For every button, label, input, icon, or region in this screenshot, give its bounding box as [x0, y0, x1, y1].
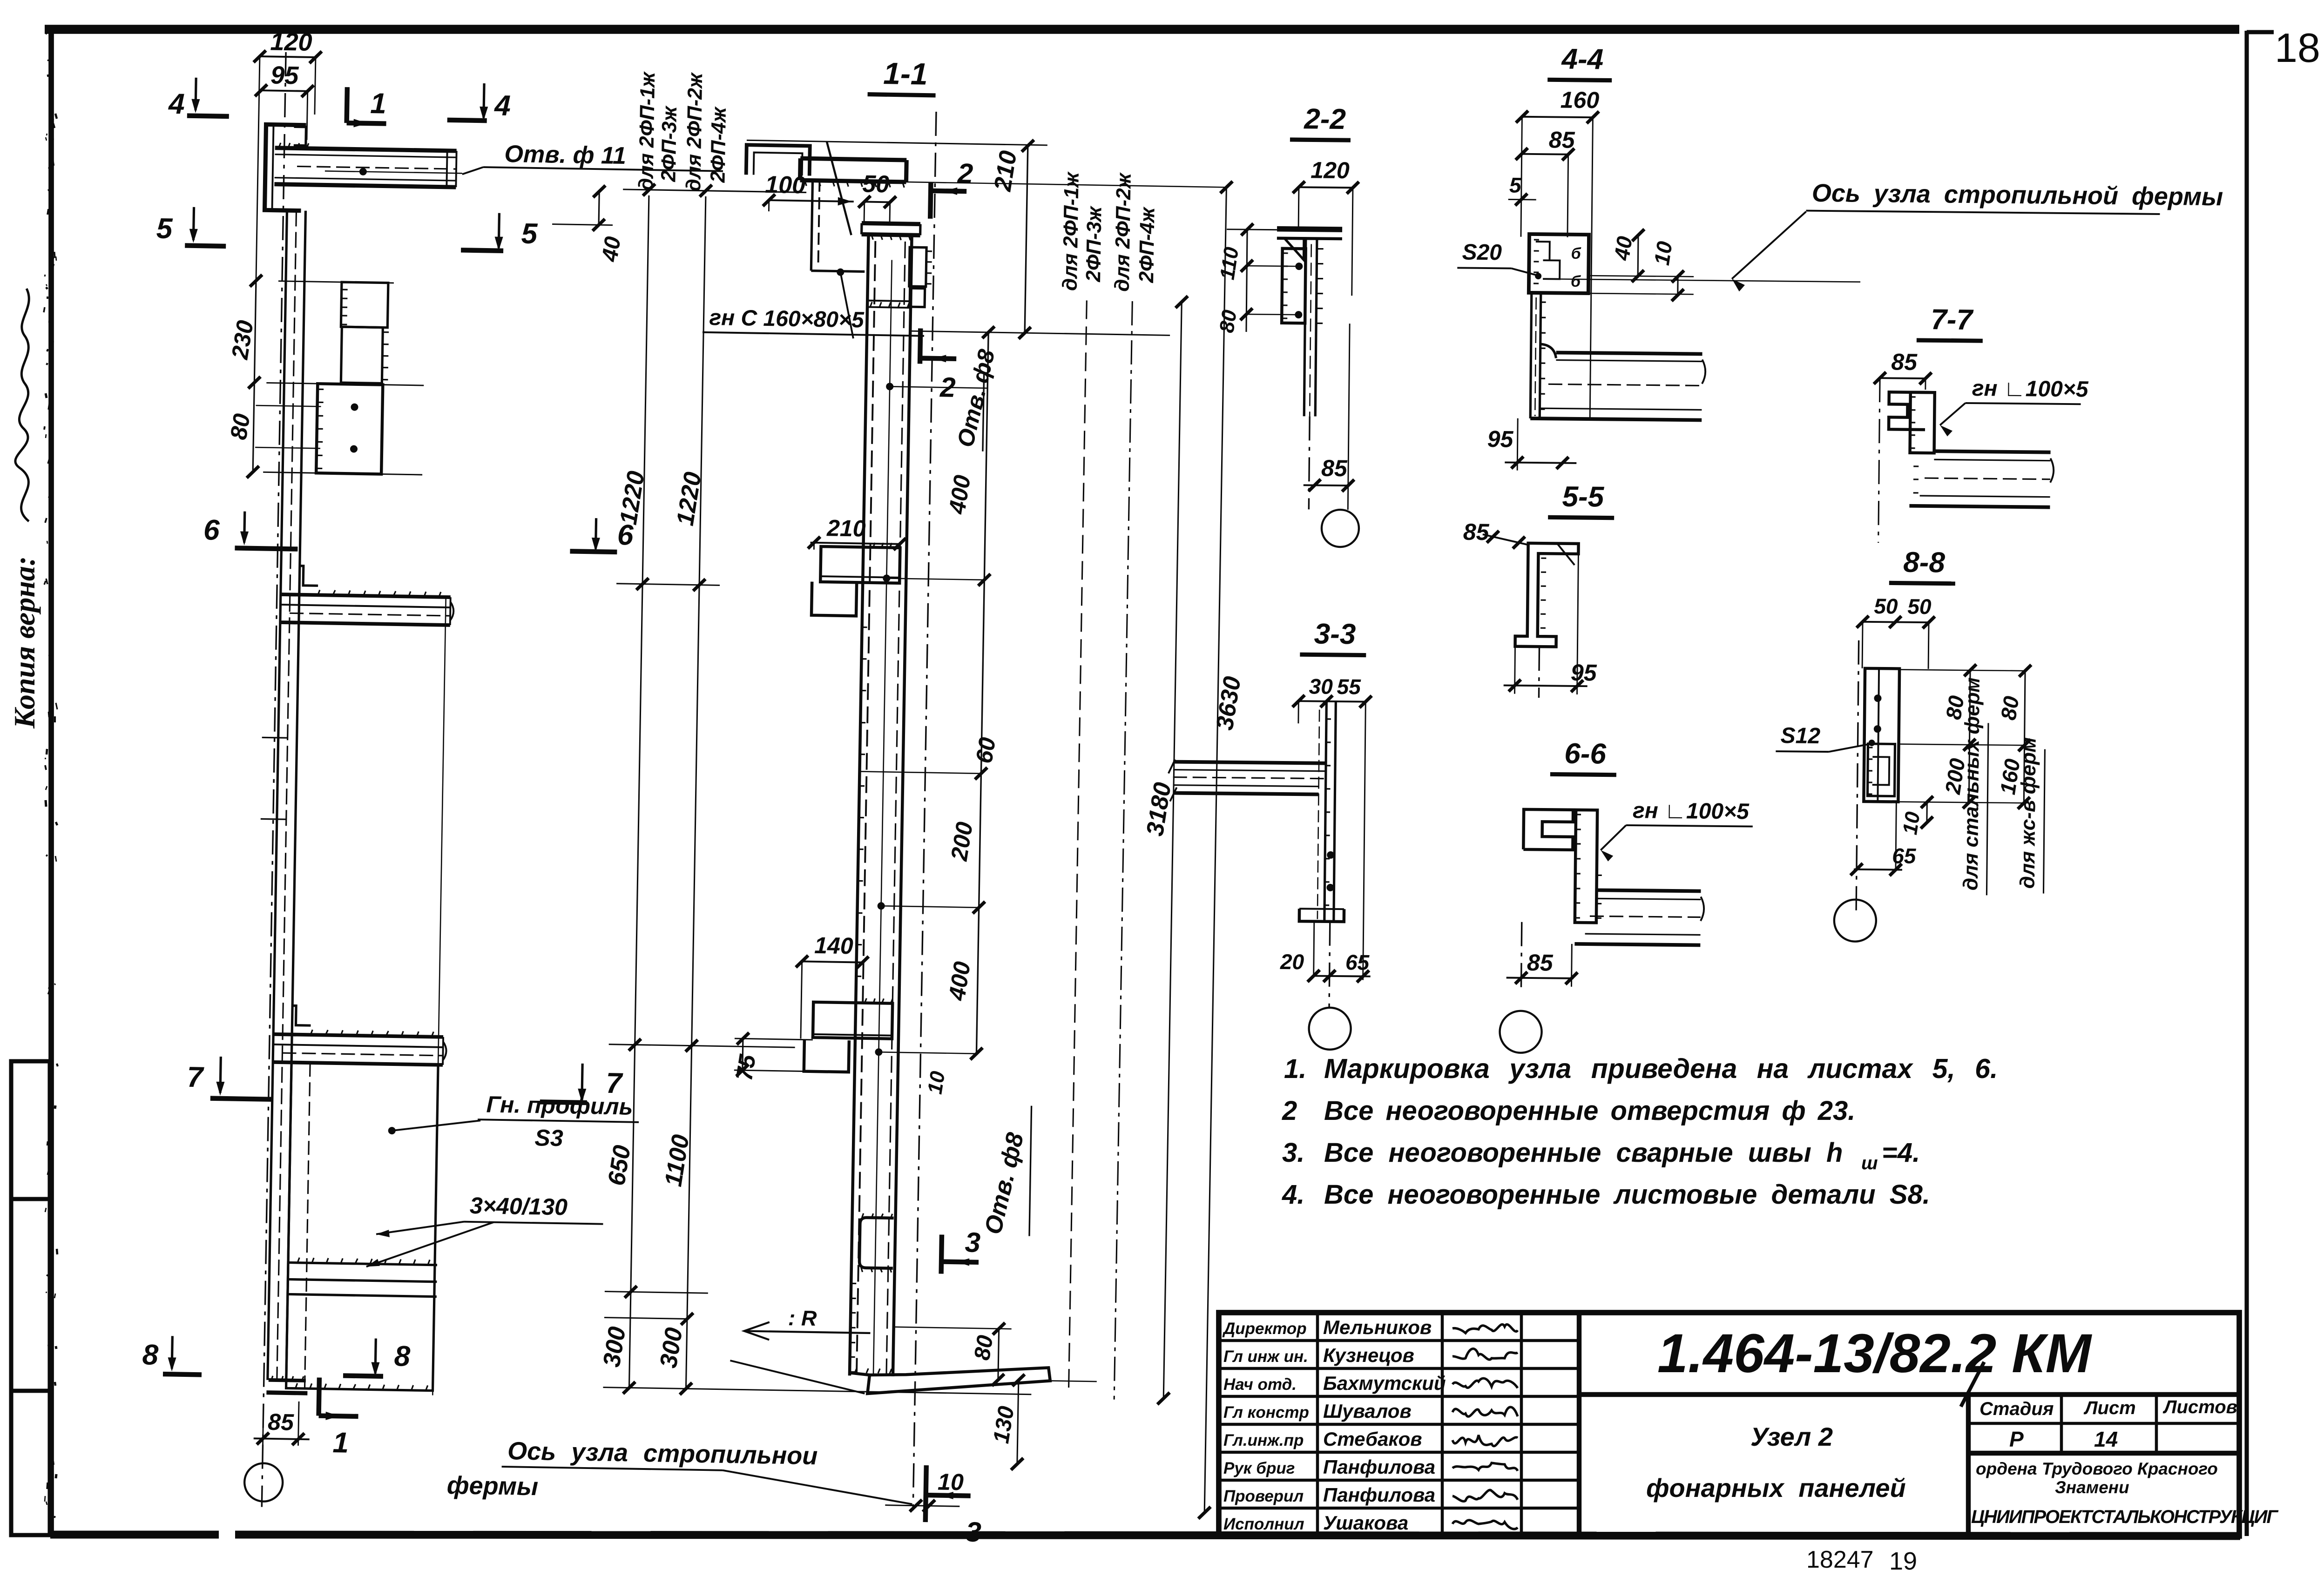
svg-text:4: 4 [168, 88, 185, 121]
svg-text:Лист: Лист [2083, 1398, 2136, 1418]
svg-text:6: 6 [203, 514, 220, 546]
svg-text:10: 10 [938, 1469, 964, 1495]
svg-text:для 2ФП-1ж: для 2ФП-1ж [635, 71, 659, 191]
svg-text:Директор: Директор [1222, 1320, 1307, 1338]
svg-text:Стебаков: Стебаков [1323, 1428, 1422, 1450]
svg-text:б: б [1571, 245, 1581, 263]
svg-text:95: 95 [1571, 660, 1597, 686]
svg-text:120: 120 [1311, 157, 1350, 183]
svg-text:2: 2 [1282, 1096, 1297, 1126]
svg-text:для 2ФП-1ж: для 2ФП-1ж [1059, 171, 1083, 291]
svg-text:85: 85 [1527, 950, 1554, 976]
svg-text:160: 160 [1561, 87, 1600, 114]
svg-text:Гл.инж.пр: Гл.инж.пр [1223, 1431, 1304, 1449]
svg-text:40: 40 [597, 235, 626, 263]
svg-text:4-4: 4-4 [1561, 43, 1603, 76]
svg-text:3-3: 3-3 [1314, 618, 1356, 651]
svg-text:Проверил: Проверил [1223, 1487, 1304, 1505]
svg-text:: R: : R [788, 1306, 817, 1330]
svg-text:Все неоговоренные сварные: Все неоговоренные сварные швы h [1324, 1138, 1843, 1168]
svg-text:110: 110 [1216, 245, 1243, 281]
svg-text:5: 5 [156, 212, 173, 245]
svg-text:для жс-в ферм: для жс-в ферм [2016, 737, 2040, 889]
svg-text:8: 8 [142, 1339, 159, 1371]
svg-text:для 2ФП-2ж: для 2ФП-2ж [682, 72, 707, 192]
svg-text:для 2ФП-2ж: для 2ФП-2ж [1111, 172, 1135, 292]
svg-text:Ось узла стропильнои: Ось узла стропильнои [507, 1437, 818, 1470]
svg-text:Знамени: Знамени [2055, 1478, 2129, 1497]
svg-text:фермы: фермы [446, 1471, 538, 1501]
svg-text:для стальных ферм: для стальных ферм [1959, 677, 1984, 890]
svg-text:85: 85 [1891, 349, 1918, 375]
svg-text:2ФП-3ж: 2ФП-3ж [657, 105, 681, 182]
svg-text:Нач отд.: Нач отд. [1223, 1375, 1297, 1394]
svg-text:Все неоговоренные отверсти: Все неоговоренные отверстия ф 23. [1324, 1096, 1855, 1126]
svg-text:140: 140 [814, 932, 854, 959]
svg-text:S3: S3 [534, 1125, 563, 1151]
svg-text:Гн. профиль: Гн. профиль [486, 1091, 633, 1119]
svg-text:80: 80 [225, 412, 255, 442]
svg-text:4: 4 [493, 89, 511, 122]
svg-text:Отв. ф 11: Отв. ф 11 [504, 141, 626, 169]
svg-text:гн ∟100×5: гн ∟100×5 [1972, 376, 2089, 402]
svg-text:210: 210 [826, 515, 866, 541]
svg-text:100: 100 [765, 171, 806, 199]
svg-text:60: 60 [971, 735, 1000, 765]
svg-text:Стадия: Стадия [1979, 1399, 2054, 1419]
svg-text:2ФП-3ж: 2ФП-3ж [1082, 205, 1106, 283]
svg-text:Гл констр: Гл констр [1223, 1403, 1309, 1422]
svg-text:5: 5 [521, 217, 538, 250]
svg-text:S12: S12 [1780, 723, 1820, 748]
svg-text:Р: Р [2009, 1427, 2024, 1451]
svg-text:3.: 3. [1282, 1138, 1304, 1168]
svg-text:Мельников: Мельников [1323, 1316, 1432, 1338]
svg-text:1: 1 [370, 88, 387, 120]
svg-text:Бахмутский: Бахмутский [1323, 1372, 1446, 1394]
svg-text:ш: ш [1861, 1153, 1878, 1173]
svg-text:50: 50 [862, 170, 890, 198]
svg-text:Все неоговоренные листов: Все неоговоренные листовые детали S8. [1324, 1179, 1930, 1210]
svg-text:10: 10 [1898, 810, 1925, 836]
svg-text:95: 95 [270, 61, 299, 89]
svg-text:гн ∟100×5: гн ∟100×5 [1633, 798, 1750, 824]
svg-text:3×40/130: 3×40/130 [470, 1193, 568, 1220]
svg-text:55: 55 [1337, 674, 1361, 699]
svg-text:80: 80 [970, 1334, 998, 1362]
svg-text:1.464-13/82.2 КМ: 1.464-13/82.2 КМ [1657, 1323, 2093, 1384]
svg-text:Гл инж ин.: Гл инж ин. [1223, 1348, 1308, 1366]
svg-text:2ФП-4ж: 2ФП-4ж [1135, 206, 1159, 283]
svg-text:7-7: 7-7 [1931, 303, 1974, 336]
svg-text:Панфилова: Панфилова [1323, 1456, 1435, 1478]
svg-text:2-2: 2-2 [1304, 103, 1346, 135]
svg-text:85: 85 [268, 1409, 295, 1435]
svg-text:1-1: 1-1 [883, 56, 928, 91]
svg-text:Копия верна:: Копия верна: [8, 556, 41, 729]
svg-text:10: 10 [1649, 240, 1677, 267]
svg-text:Панфилова: Панфилова [1323, 1484, 1435, 1506]
svg-text:50: 50 [1874, 594, 1898, 618]
svg-text:2: 2 [957, 158, 973, 189]
svg-text:Узел 2: Узел 2 [1750, 1422, 1833, 1451]
svg-text:8: 8 [394, 1340, 411, 1373]
svg-text:Листов: Листов [2162, 1397, 2237, 1417]
svg-text:120: 120 [270, 27, 312, 56]
svg-text:Рук бриг: Рук бриг [1223, 1459, 1295, 1477]
svg-text:Исполнил: Исполнил [1223, 1515, 1304, 1533]
svg-text:1.: 1. [1284, 1054, 1306, 1084]
svg-text:18247: 18247 [1806, 1546, 1874, 1570]
svg-text:Кузнецов: Кузнецов [1323, 1344, 1414, 1366]
svg-text:гн С 160×80×5: гн С 160×80×5 [709, 305, 865, 333]
svg-text:18: 18 [2275, 25, 2320, 71]
svg-text:фонарных панелей: фонарных панелей [1646, 1473, 1906, 1503]
svg-text:Ушакова: Ушакова [1323, 1512, 1408, 1534]
svg-text:7: 7 [187, 1061, 204, 1094]
svg-text:Маркировка узла приведена: Маркировка узла приведена на листах 5, 6… [1324, 1053, 1998, 1084]
svg-text:85: 85 [1321, 455, 1348, 482]
svg-text:80: 80 [1215, 308, 1241, 334]
svg-text:=4.: =4. [1882, 1138, 1920, 1168]
svg-text:ЦНИИПРОЕКТСТАЛЬКОНСТРУКЦИГ: ЦНИИПРОЕКТСТАЛЬКОНСТРУКЦИГ [1971, 1507, 2279, 1527]
svg-text:4.: 4. [1282, 1179, 1304, 1210]
svg-text:30: 30 [1309, 674, 1333, 698]
svg-text:5: 5 [1509, 173, 1522, 197]
svg-text:85: 85 [1463, 519, 1490, 546]
svg-text:2ФП-4ж: 2ФП-4ж [706, 106, 730, 183]
svg-text:95: 95 [1487, 426, 1514, 452]
svg-text:8-8: 8-8 [1903, 546, 1946, 579]
svg-text:14: 14 [2094, 1427, 2118, 1451]
svg-text:3: 3 [965, 1226, 980, 1258]
svg-text:1: 1 [332, 1427, 349, 1459]
svg-text:б: б [1571, 273, 1581, 290]
svg-text:3: 3 [966, 1516, 981, 1548]
svg-text:S20: S20 [1462, 240, 1502, 265]
svg-text:20: 20 [1280, 950, 1304, 974]
svg-text:19: 19 [1889, 1547, 1917, 1570]
svg-text:50: 50 [1907, 594, 1932, 619]
svg-text:Шувалов: Шувалов [1323, 1400, 1412, 1422]
svg-text:ордена Трудового Красного: ордена Трудового Красного [1976, 1459, 2218, 1478]
svg-text:80: 80 [1996, 694, 2023, 722]
svg-text:Ось узла стропильной фермы: Ось узла стропильной фермы [1812, 179, 2223, 211]
svg-text:10: 10 [923, 1070, 949, 1096]
svg-text:6-6: 6-6 [1564, 738, 1607, 770]
svg-text:5-5: 5-5 [1562, 481, 1605, 513]
